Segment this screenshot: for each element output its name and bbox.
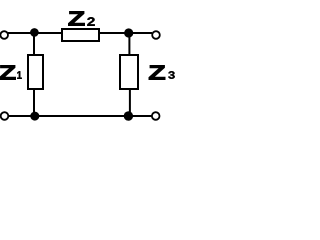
wire: bottom return rail <box>8 115 152 117</box>
label Z2 (series impedance) <box>68 11 94 25</box>
label Z3 (right shunt impedance) <box>149 65 175 79</box>
junction node A' (bottom left solder dot) <box>30 112 39 121</box>
wire: node B down to Z3 top <box>128 33 130 56</box>
terminal: input port top (open circle) <box>0 31 8 39</box>
terminal: input port bottom (open circle) <box>1 112 9 120</box>
impedance Z3 body (right shunt element, vertical box) <box>120 55 138 89</box>
terminal: output port bottom (open circle) <box>152 112 160 120</box>
terminal: output port top (open circle) <box>152 31 160 39</box>
wire: Z3 bottom to bottom rail <box>129 89 131 116</box>
wire: node B to output terminal (top right) <box>129 32 152 34</box>
wire: node A down to Z1 top <box>33 33 35 56</box>
impedance Z2 body (series element, horizontal box) <box>62 29 99 41</box>
wire: node A to Z2 left lead <box>34 32 62 34</box>
junction node A (top left solder dot) <box>30 28 39 37</box>
wire: Z2 right lead to node B <box>99 32 129 34</box>
impedance Z1 body (left shunt element, vertical box) <box>28 55 43 89</box>
wire: input terminal to node A (top left) <box>8 32 34 34</box>
junction node B (top right solder dot) <box>124 28 133 37</box>
label Z1 (left shunt impedance) <box>0 65 22 79</box>
junction node B' (bottom right solder dot) <box>124 111 133 120</box>
wire: Z1 bottom to bottom rail <box>33 89 35 116</box>
